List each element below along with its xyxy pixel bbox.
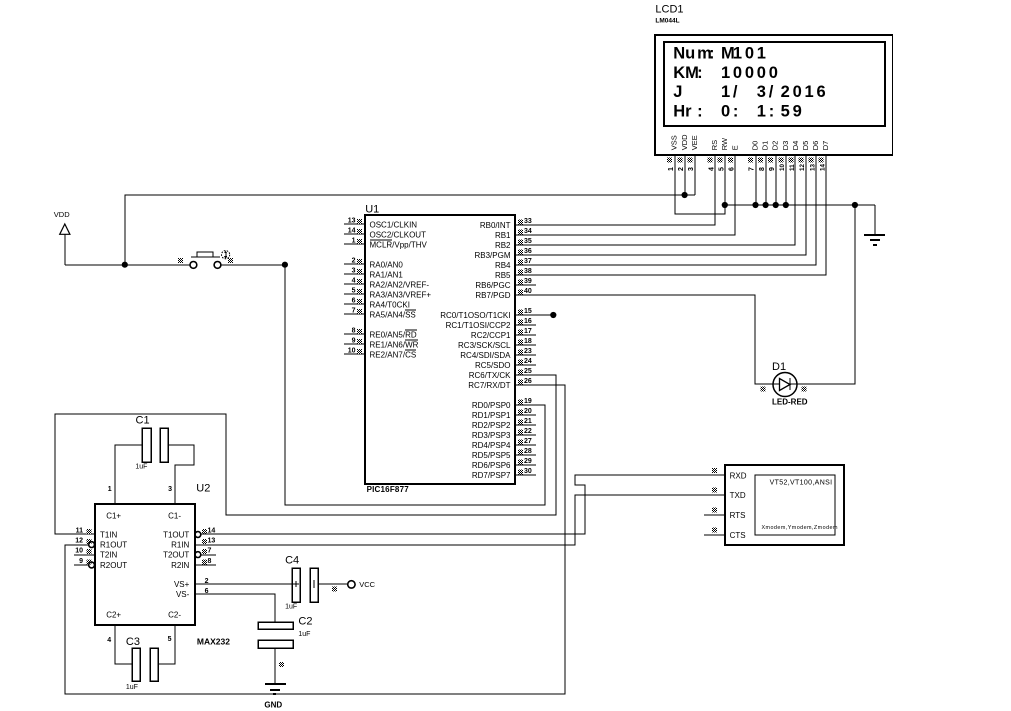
U1 pin 19 (RD0/PSP0) stub, number and name [472,398,536,410]
wire U1 RC7/RX (26) to U2 R1OUT [65,385,565,694]
wire U1 RB0 (33) to LCD RS [536,156,715,225]
LED D1 (LED-RED) [760,373,806,397]
U1 pin 36 (RB3/PGM) stub, number and name [474,248,536,260]
terminal pin RXD label and hatch [712,468,747,481]
U2 pin 9 number/hatch, bubble and stub (R2OUT) [74,558,95,568]
svg-text:D3: D3 [781,141,790,151]
svg-text::: : [709,44,715,62]
LCD1 display window [664,42,885,126]
svg-text:3: 3 [168,486,172,493]
svg-text:J: J [673,83,682,101]
wire button to RD0 net corner [221,264,285,266]
svg-text:RB7/PGD: RB7/PGD [475,291,510,300]
svg-text:RA1/AN1: RA1/AN1 [370,270,404,279]
svg-text:1: 1 [721,64,730,82]
svg-text:RB1: RB1 [495,231,511,240]
svg-text:R2IN: R2IN [171,561,189,570]
svg-text:D2: D2 [771,141,780,151]
wire U1 RC6/TX (25) to U2 T1IN [55,375,556,534]
U1 pin 9 (RE1/AN6/WR) stub, number and name [344,338,419,350]
svg-text:35: 35 [524,238,532,245]
RS232 driver U2 body [95,504,195,625]
svg-text:RS: RS [710,140,719,150]
svg-text:3: 3 [757,83,766,101]
svg-text:26: 26 [524,378,532,385]
LCD1 screen text [673,44,825,120]
C3 value label 1uF [126,684,138,691]
U1 pin 24 (RC5/SDO) stub, number and name [475,358,536,370]
ground symbol top right [864,205,885,245]
svg-text:12: 12 [799,163,806,171]
svg-text:22: 22 [524,428,532,435]
svg-text:RE0/AN5/RD: RE0/AN5/RD [370,330,417,339]
U2 pin name R1IN [171,540,189,549]
wire C4 to VCC terminal [318,583,348,585]
wire LCD D3 stub to ground bus and junction [783,156,789,208]
svg-text:RB5: RB5 [495,271,511,280]
junction node LED branch on ground bus [852,202,858,208]
svg-text:34: 34 [524,228,532,235]
svg-text:2: 2 [352,258,356,265]
svg-text:LED-RED: LED-RED [772,397,808,406]
capacitor C1 plates [142,428,168,462]
svg-text:E: E [730,145,739,150]
U1 pin 33 (RB0/INT) stub, number and name [480,218,536,230]
svg-text:8: 8 [759,167,766,171]
svg-text:4: 4 [352,278,356,285]
svg-text:4: 4 [708,167,715,171]
svg-text:9: 9 [79,558,83,565]
svg-text:OSC2/CLKOUT: OSC2/CLKOUT [370,230,427,239]
wire LCD D0 stub to ground bus and junction [752,156,758,208]
junction node LCD RW pin on ground bus [722,202,728,208]
svg-text:30: 30 [524,468,532,475]
svg-text:20: 20 [524,408,532,415]
U1 pin 30 (RD7/PSP7) stub, number and name [472,468,536,480]
U2 pin 3 number [168,486,172,493]
svg-text:10: 10 [75,548,83,555]
U2 pin name C2+ [106,611,121,620]
terminal pin CTS label and hatch [704,528,746,541]
U1 pin 38 (RB5) stub, number and name [495,268,536,280]
svg-text:T1OUT: T1OUT [163,530,189,539]
svg-text:OSC1/CLKIN: OSC1/CLKIN [370,220,418,229]
terminal emulation label VT52,VT100,ANSI [770,480,833,487]
LCD1 pin 6 (E) rotated name, number and hatch [728,145,740,171]
svg-text:N: N [673,44,685,62]
GND label [264,701,282,710]
U2 pin 4 number [107,637,111,644]
wire U1 RC0 (15) dangling with junction dot [536,312,556,318]
svg-text:RD4/PSP4: RD4/PSP4 [472,441,511,450]
svg-text:RB2: RB2 [495,241,511,250]
svg-text:/: / [769,83,774,101]
svg-text:u: u [685,44,695,62]
U1 pin 16 (RC1/T1OSI/CCP2) stub, number and name [446,318,536,330]
svg-text:1: 1 [721,83,730,101]
svg-text:RB0/INT: RB0/INT [480,221,511,230]
svg-text:9: 9 [769,167,776,171]
wire C2 down to ground [275,648,284,684]
wire LCD D1 stub to ground bus and junction [763,156,769,208]
terminal protocol label Xmodem,Ymodem,Zmodem [762,525,838,531]
U1 pin 2 (RA0/AN0) stub, number and name [344,258,403,270]
U1 pin 10 (RE2/AN7/CS) stub, number and name [344,348,416,360]
svg-text:RD5/PSP5: RD5/PSP5 [472,451,511,460]
svg-text::: : [733,103,739,121]
svg-text:RC0/T1OSO/T1CKI: RC0/T1OSO/T1CKI [440,311,510,320]
LCD1 pin 11 (D4) rotated name, number and hatch [788,141,800,171]
LCD1 pin 13 (D6) rotated name, number and hatch [809,141,821,171]
U2 pin 14 hatch/number and bubble (T1OUT) [195,528,215,538]
svg-text:C2+: C2+ [106,611,121,620]
wire U1 RB5 (38) to LCD D7 [536,156,826,275]
svg-text:RC5/SDO: RC5/SDO [475,361,511,370]
U2 pin name T2IN [100,550,118,559]
svg-text:RA5/AN4/SS: RA5/AN4/SS [370,310,416,319]
U1 value label PIC16F877 [367,485,410,494]
svg-text:7: 7 [208,548,212,555]
U2 pin name C1+ [106,511,121,520]
C2 value label 1uF [298,631,310,638]
svg-text:10: 10 [779,163,786,171]
U1 pin 23 (RC4/SDI/SDA) stub, number and name [460,348,536,360]
LCD display LCD1 outer body [655,35,893,155]
U1 pin 28 (RD5/PSP5) stub, number and name [472,448,536,460]
C3 reference label [126,636,140,648]
U2 pin name VS+ [174,580,190,589]
svg-text:5: 5 [781,103,790,121]
svg-text:VS+: VS+ [174,580,190,589]
svg-text:D7: D7 [821,141,830,151]
svg-text:5: 5 [352,288,356,295]
U2 pin name VS- [176,590,190,599]
wire C1 left plate to U2 pin 1 (C1+) [115,445,142,504]
svg-text:RTS: RTS [730,511,746,520]
svg-text:RD3/PSP3: RD3/PSP3 [472,431,511,440]
svg-text:D1: D1 [772,361,786,373]
LCD1 value label LM044L [655,18,679,25]
svg-text:13: 13 [809,163,816,171]
svg-text:RC2/CCP1: RC2/CCP1 [471,331,511,340]
svg-text:RE2/AN7/CS: RE2/AN7/CS [370,350,417,359]
U2 pin 5 number [168,636,172,643]
svg-text:27: 27 [524,438,532,445]
U2 pin name T1OUT [163,530,189,539]
C4 reference label [285,554,299,566]
svg-text:RA3/AN3/VREF+: RA3/AN3/VREF+ [370,290,432,299]
LCD1 pin 10 (D3) rotated name, number and hatch [778,141,790,171]
U2 pin name C1- [168,511,181,520]
C1 reference label [136,415,150,427]
wire C3 right plate to U2 pin 5 (C2-) [158,625,175,664]
wire LCD VSS pin 1 hook to ground bus [675,156,725,214]
U1 pin 35 (RB2) stub, number and name [495,238,536,250]
svg-text:23: 23 [524,348,532,355]
svg-text:11: 11 [76,528,84,535]
svg-text:/: / [733,83,738,101]
U2 reference label [196,483,210,495]
U1 pin 17 (RC2/CCP1) stub, number and name [471,328,536,340]
svg-text:5: 5 [168,636,172,643]
wire VDD branch up to LCD VDD/VEE pins [125,156,695,265]
svg-text:RD0/PSP0: RD0/PSP0 [472,401,511,410]
svg-text:D1: D1 [761,141,770,151]
svg-text:VS-: VS- [176,590,190,599]
svg-text:D0: D0 [751,141,760,151]
svg-text:1uF: 1uF [298,631,310,638]
U1 pin 5 (RA3/AN3/VREF+) stub, number and name [344,288,431,300]
svg-text:16: 16 [524,318,532,325]
svg-text:24: 24 [524,358,532,365]
svg-text:C1+: C1+ [106,511,121,520]
LCD1 pin 5 (RW) rotated name, number and hatch [718,137,730,171]
svg-text:CTS: CTS [730,531,746,540]
svg-text:1: 1 [668,167,675,171]
svg-text:RE1/AN6/WR: RE1/AN6/WR [370,340,419,349]
U1 pin 14 (OSC2/CLKOUT) stub, number and name [344,228,426,240]
svg-text:RD6/PSP6: RD6/PSP6 [472,461,511,470]
U2 pin 12 number/hatch and bubble (R1OUT) [75,538,94,548]
svg-text:RC6/TX/CK: RC6/TX/CK [469,371,511,380]
svg-text:LM044L: LM044L [655,18,679,25]
svg-text:13: 13 [348,218,356,225]
ground symbol bottom (GND) [265,684,286,694]
svg-text:10: 10 [348,348,356,355]
C2 reference label [298,615,312,627]
svg-text:0: 0 [721,103,730,121]
LCD1 pin 12 (D5) rotated name, number and hatch [799,141,811,171]
svg-text:RXD: RXD [730,471,747,480]
U2 pin name R1OUT [100,540,127,549]
wire U2 T1OUT (14) to terminal RXD [201,475,725,534]
junction node LCD VDD pin on VDD wire [682,192,688,198]
svg-text:0: 0 [793,83,802,101]
wire LCD D2 stub to ground bus and junction [773,156,779,208]
LCD1 pin 9 (D2) rotated name, number and hatch [768,141,780,171]
U1 pin 7 (RA5/AN4/SS) stub, number and name [344,308,416,320]
junction node at button/RD0 corner [282,262,288,268]
svg-text:18: 18 [524,338,532,345]
svg-text:VEE: VEE [690,135,699,150]
svg-text:PIC16F877: PIC16F877 [367,485,410,494]
svg-text:T2IN: T2IN [100,550,118,559]
svg-text:1uF: 1uF [135,464,147,471]
VCC label [359,580,375,589]
LCD1 pin 8 (D1) rotated name, number and hatch [758,141,770,171]
svg-text:VDD: VDD [680,134,689,150]
LCD1 reference label [655,3,683,15]
U2 value label MAX232 [197,637,230,647]
svg-text:2: 2 [781,83,790,101]
svg-text:R1OUT: R1OUT [100,540,127,549]
svg-text:39: 39 [524,278,532,285]
U1 pin 21 (RD2/PSP2) stub, number and name [472,418,536,430]
svg-text:RW: RW [720,137,729,150]
svg-text:19: 19 [524,398,532,405]
svg-text:15: 15 [524,308,532,315]
svg-text:C2-: C2- [168,611,181,620]
wire VDD to button [65,264,190,266]
svg-text:28: 28 [524,448,532,455]
wire U1 RB3 (36) to LCD D5 [536,156,806,255]
LCD1 pin 7 (D0) rotated name, number and hatch [748,141,760,171]
wire U1 RB7/PGD (40) to LED anode [536,295,773,384]
svg-text:1: 1 [352,238,356,245]
polarized capacitor C4 plates with polarity marks [292,568,318,602]
svg-text:14: 14 [348,228,356,235]
svg-text:VT52,VT100,ANSI: VT52,VT100,ANSI [770,480,833,487]
VCC power terminal [332,581,355,592]
U2 pin name T2OUT [163,550,189,559]
terminal pin RTS label and hatch [704,508,745,521]
svg-text:RC4/SDI/SDA: RC4/SDI/SDA [460,351,511,360]
U2 pin 8 hatch/number and stub (R2IN) [195,558,216,565]
svg-text:13: 13 [208,538,216,545]
terminal pin TXD label and hatch [712,488,746,501]
virtual terminal screen [755,475,835,535]
U1 pin 1 (MCLR/Vpp/THV) stub, number and name [344,238,428,250]
svg-text:VDD: VDD [54,210,70,219]
svg-text:1: 1 [108,486,112,493]
svg-text:38: 38 [524,268,532,275]
svg-text:RA4/T0CKI: RA4/T0CKI [370,300,410,309]
svg-text:0: 0 [745,64,754,82]
power symbol VDD [54,210,70,265]
svg-text:C1-: C1- [168,511,181,520]
svg-text:LCD1: LCD1 [655,3,683,15]
svg-text:C1: C1 [136,415,150,427]
svg-text:D5: D5 [801,141,810,151]
svg-text:9: 9 [352,338,356,345]
svg-text:1: 1 [757,44,766,62]
U1 pin 39 (RB6/PGC) stub, number and name [475,278,536,290]
U1 pin 29 (RD6/PSP6) stub, number and name [472,458,536,470]
svg-text:4: 4 [107,637,111,644]
svg-text:7: 7 [749,167,756,171]
LCD1 pin 3 (VEE) rotated name, number and hatch [687,135,699,171]
C1 value label 1uF [135,464,147,471]
wire C1 right plate to U2 pin 3 (C1-) [168,445,194,504]
svg-text:7: 7 [352,308,356,315]
svg-text:D4: D4 [791,141,800,151]
svg-text:0: 0 [769,64,778,82]
U1 pin 34 (RB1) stub, number and name [495,228,536,240]
U1 pin 20 (RD1/PSP1) stub, number and name [472,408,536,420]
U2 pin 7 hatch/number, bubble and stub (T2OUT) [195,548,216,558]
wire U1 RB2 (35) to LCD D4 [536,156,795,245]
D1 value label LED-RED [772,397,808,406]
svg-text:RB6/PGC: RB6/PGC [475,281,510,290]
U2 pin 1 number [108,486,112,493]
U1 pin 18 (RC3/SCK/SCL) stub, number and name [458,338,536,350]
svg-text:U2: U2 [196,483,210,495]
svg-text:D6: D6 [811,141,820,151]
svg-text:RD2/PSP2: RD2/PSP2 [472,421,511,430]
svg-text:T1IN: T1IN [100,530,118,539]
svg-text:VCC: VCC [359,580,375,589]
svg-text:RD1/PSP1: RD1/PSP1 [472,411,511,420]
svg-text:MCLR/Vpp/THV: MCLR/Vpp/THV [370,240,428,249]
svg-text:3: 3 [688,167,695,171]
svg-text:VSS: VSS [670,135,679,150]
U2 pin 10 number/hatch and stub (T2IN) [74,548,95,555]
svg-text:0: 0 [757,64,766,82]
U2 pin name R2IN [171,561,189,570]
svg-text:TXD: TXD [730,491,746,500]
svg-text:8: 8 [352,328,356,335]
svg-text:1uF: 1uF [285,604,297,611]
svg-text:RB4: RB4 [495,261,511,270]
LCD1 pin 14 (D7) rotated name, number and hatch [819,141,831,171]
LCD1 pin 4 (RS) rotated name, number and hatch [708,140,720,171]
svg-text:21: 21 [524,418,532,425]
junction node VDD/LCD branch [122,262,128,268]
svg-text:RA0/AN0: RA0/AN0 [370,260,404,269]
svg-text:33: 33 [524,218,532,225]
U1 pin 3 (RA1/AN1) stub, number and name [344,268,403,280]
svg-text:RA2/AN2/VREF-: RA2/AN2/VREF- [370,280,430,289]
U1 pin 6 (RA4/T0CKI) stub, number and name [344,298,410,310]
wire button right terminal down and across to U1 RD0/PSP0 pin 19 [285,265,545,505]
svg-text:RC3/SCK/SCL: RC3/SCK/SCL [458,341,511,350]
wire U1 RB1 (34) to LCD E [536,156,735,235]
svg-text:RB3/PGM: RB3/PGM [474,251,510,260]
wire U2 pin 4 (C2+) to C3 left plate [115,625,132,664]
svg-text:2: 2 [678,167,685,171]
svg-text:17: 17 [524,328,532,335]
svg-text:GND: GND [264,701,282,710]
push button (interactive switch) [178,251,233,269]
U1 pin 8 (RE0/AN5/RD) stub, number and name [344,328,417,340]
svg-text:C3: C3 [126,636,140,648]
svg-text:Xmodem,Ymodem,Zmodem: Xmodem,Ymodem,Zmodem [762,525,838,531]
U1 pin 15 (RC0/T1OSO/T1CKI) stub, number and name [440,308,536,320]
wire U2 VS+ (2) to C4 [195,583,292,585]
svg-text:9: 9 [793,103,802,121]
LCD1 pin 2 (VDD) rotated name, number and hatch [677,134,689,171]
svg-text:K: K [673,64,685,82]
microcontroller U1 body [365,215,515,484]
svg-text:1: 1 [805,83,814,101]
svg-text:0: 0 [745,44,754,62]
svg-text:12: 12 [75,538,83,545]
svg-text:T2OUT: T2OUT [163,550,189,559]
U1 pin 27 (RD4/PSP4) stub, number and name [472,438,536,450]
svg-text:6: 6 [352,298,356,305]
svg-text:25: 25 [524,368,532,375]
U2 pin 2 number (VS+) [205,578,209,585]
U1 pin 25 (RC6/TX/CK) stub, number and name [469,368,536,380]
U2 pin name R2OUT [100,561,127,570]
svg-text:RD7/PSP7: RD7/PSP7 [472,471,511,480]
U2 pin 11 number/hatch (T1IN) [76,528,92,535]
wire U2 R1IN (13) to terminal TXD [195,495,725,545]
svg-text:1: 1 [757,103,766,121]
svg-text:H: H [673,103,685,121]
svg-text:R2OUT: R2OUT [100,561,127,570]
svg-text:U1: U1 [365,203,379,215]
virtual terminal body [725,465,844,545]
svg-text:37: 37 [524,258,532,265]
capacitor C2 plates [258,622,293,648]
wire LED cathode up to ground bus [797,205,855,384]
svg-text:0: 0 [733,64,742,82]
svg-text::: : [697,103,703,121]
wire U2 VS- (6) to C2 [195,594,275,622]
svg-text::: : [697,64,703,82]
svg-text::: : [769,103,775,121]
